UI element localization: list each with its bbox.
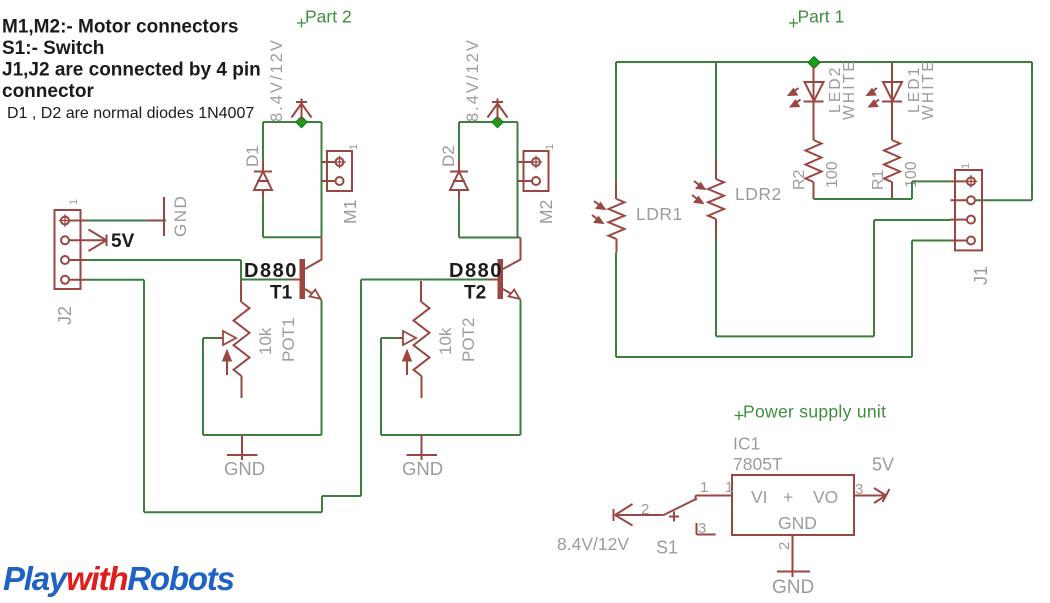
LED LED1 [867, 63, 903, 107]
svg-text:T2: T2 [464, 283, 486, 304]
label S1 [656, 538, 678, 558]
note line 5 [7, 105, 254, 122]
label GND (J2) [171, 195, 190, 237]
pin label 3 (IC1) [855, 481, 863, 498]
wire J2 pin4 to T2 base [87, 280, 488, 513]
wire Part1 top rail [616, 61, 1032, 63]
label D2 [439, 145, 458, 167]
wire D2/M2 loop [459, 122, 521, 238]
svg-text:Part 1: Part 1 [798, 7, 845, 27]
svg-text:IC1: IC1 [733, 434, 760, 454]
svg-text:5V: 5V [872, 455, 894, 475]
label D880 (T2) [449, 260, 503, 282]
svg-text:D1 , D2 are normal diodes 1N40: D1 , D2 are normal diodes 1N4007 [7, 105, 254, 122]
svg-text:GND: GND [171, 195, 190, 237]
svg-text:M1,M2:- Motor connectors: M1,M2:- Motor connectors [2, 17, 238, 38]
svg-text:GND: GND [402, 458, 443, 479]
label LDR1 [636, 204, 683, 224]
label GND (POT1) [224, 458, 265, 479]
transistor T1 [290, 237, 322, 299]
svg-text:T1: T1 [270, 283, 293, 304]
supply 8.4V/12V arrow (right) [488, 99, 508, 123]
svg-text:WHITE: WHITE [841, 59, 858, 120]
label 10k (POT1) [256, 327, 275, 355]
svg-text:Part 2: Part 2 [305, 7, 352, 27]
svg-text:VO: VO [813, 487, 838, 507]
photoresistor LDR2 [692, 160, 724, 239]
pin label 2 (IC1) [776, 542, 793, 550]
diode D2 [450, 161, 468, 199]
svg-text:2: 2 [776, 542, 793, 550]
label POT1 [279, 318, 298, 362]
svg-text:S1: S1 [656, 538, 678, 558]
pin label 3 (S1) [698, 520, 706, 537]
label T2 [464, 283, 486, 304]
pin label 1 (IC1) [725, 479, 733, 496]
ground GND (J2) [148, 197, 166, 236]
svg-text:+: + [783, 487, 793, 507]
pin label 1 (J1) [960, 163, 972, 169]
label 8.4V/12V (left) [268, 38, 286, 122]
svg-text:S1:- Switch: S1:- Switch [2, 38, 104, 59]
wire J2 pin1 to GND [87, 220, 148, 222]
label GND (POT2) [402, 458, 443, 479]
label 100 (R2) [824, 161, 841, 188]
label 5V (IC1 out) [872, 455, 894, 475]
label 8.4V/12V (input) [557, 534, 629, 554]
svg-text:J1: J1 [971, 266, 991, 285]
svg-text:D880: D880 [244, 260, 298, 282]
svg-text:WHITE: WHITE [920, 59, 937, 120]
note line 1 [2, 17, 238, 38]
label 100 (R1) [903, 161, 920, 188]
label R1 [870, 169, 887, 190]
svg-text:8.4V/12V: 8.4V/12V [268, 38, 286, 122]
svg-text:PlaywithRobots: PlaywithRobots [3, 560, 235, 597]
svg-text:1: 1 [68, 199, 80, 205]
svg-text:POT1: POT1 [279, 318, 298, 362]
label T1 [270, 283, 293, 304]
logo PlaywithRobots [3, 560, 235, 597]
svg-text:2: 2 [641, 501, 649, 518]
svg-text:R1: R1 [870, 169, 887, 190]
resistor R1 [884, 102, 900, 200]
connector J2 [55, 210, 88, 289]
svg-text:POT2: POT2 [459, 318, 478, 362]
svg-text:M1: M1 [340, 200, 360, 224]
label + (IC1) [783, 487, 793, 507]
svg-text:J2: J2 [55, 306, 75, 325]
resistor R2 [806, 102, 822, 200]
title Power supply unit [735, 402, 887, 422]
label LED2 WHITE [827, 59, 858, 120]
label D880 (T1) [244, 260, 298, 282]
svg-text:5V: 5V [111, 231, 135, 252]
svg-text:D1: D1 [243, 145, 262, 167]
potentiometer POT1 [218, 281, 250, 398]
wire LDR1 to J1 pin4 [616, 62, 951, 357]
wire IC1 pin1 [704, 495, 732, 497]
svg-text:1: 1 [960, 163, 972, 169]
note line 3 [2, 60, 261, 81]
svg-text:Power supply unit: Power supply unit [743, 402, 886, 422]
connector J1 [951, 170, 983, 250]
svg-text:8.4V/12V: 8.4V/12V [464, 38, 482, 122]
LED LED2 [788, 66, 824, 107]
pin label 1 (M1) [348, 144, 360, 150]
svg-text:R2: R2 [791, 169, 808, 190]
svg-text:7805T: 7805T [733, 454, 783, 474]
node junction (LED2 column) [808, 57, 820, 69]
svg-text:J1,J2 are connected by 4 pin: J1,J2 are connected by 4 pin [2, 60, 261, 81]
ground GND (POT2) [407, 435, 438, 460]
svg-text:M2: M2 [536, 200, 556, 224]
label POT2 [459, 318, 478, 362]
svg-text:3: 3 [855, 481, 863, 498]
svg-text:VI: VI [751, 487, 768, 507]
label LED1 WHITE [906, 59, 937, 120]
title Part 1 [789, 7, 844, 28]
svg-text:1: 1 [725, 479, 733, 496]
node junction (supply M1) [296, 116, 307, 127]
label D1 [243, 145, 262, 167]
svg-text:GND: GND [224, 458, 265, 479]
supply 8.4V/12V arrow (left) [292, 99, 312, 123]
node junction (supply M2) [492, 116, 503, 127]
label 8.4V/12V (right) [464, 38, 482, 122]
label 5V [111, 231, 135, 252]
svg-text:GND: GND [772, 577, 814, 598]
svg-text:1: 1 [700, 479, 708, 496]
connector M2 [518, 151, 549, 191]
svg-text:10k: 10k [256, 327, 275, 355]
wire IC1 pin3 5V arrow [854, 488, 890, 503]
ground GND (POT1) [227, 435, 258, 460]
title Part 2 [297, 7, 352, 28]
wire LDR2 to J1 pin3 [716, 62, 951, 336]
label GND (IC1) [772, 577, 814, 598]
photoresistor LDR1 [592, 181, 625, 253]
label GND inside IC1 [778, 513, 817, 533]
pin label 1 (S1) [700, 479, 708, 496]
svg-text:LDR2: LDR2 [735, 184, 782, 204]
potentiometer POT2 [398, 281, 430, 398]
wire J2 pin3 to T1 base / POT1 [87, 260, 290, 281]
pin label 1 (J2) [68, 199, 80, 205]
diode D1 [254, 161, 272, 199]
supply 8.4V/12V arrow (input) [614, 504, 664, 526]
label M1 [340, 200, 360, 224]
wire D1/M1 loop [263, 122, 322, 237]
svg-text:connector: connector [2, 81, 94, 102]
label 7805T [733, 454, 783, 474]
transistor T2 [488, 238, 521, 300]
label M2 [536, 200, 556, 224]
label J1 [971, 266, 991, 285]
svg-text:1: 1 [348, 144, 360, 150]
label VI [751, 487, 768, 507]
wire POT1 wiper to T1 emitter [203, 300, 322, 435]
wire POT2 wiper to T2 emitter [381, 300, 521, 435]
note line 2 [2, 38, 104, 59]
label J2 [55, 306, 75, 325]
pin label 1 (M2) [544, 144, 556, 150]
label 10k (POT2) [436, 327, 455, 355]
pin label 2 (S1) [641, 501, 649, 518]
wire IC1 pin2 GND [792, 535, 794, 570]
svg-text:3: 3 [698, 520, 706, 537]
svg-text:GND: GND [778, 513, 817, 533]
supply 5V arrow [87, 230, 107, 252]
switch S1 [664, 496, 716, 535]
wire R rail to J1 pin1 [814, 181, 951, 199]
svg-text:1: 1 [544, 144, 556, 150]
svg-text:100: 100 [824, 161, 841, 188]
label IC1 [733, 434, 760, 454]
svg-text:D2: D2 [439, 145, 458, 167]
ground GND (IC1) [777, 570, 810, 577]
svg-text:8.4V/12V: 8.4V/12V [557, 534, 629, 554]
svg-text:10k: 10k [436, 327, 455, 355]
wire Part1 right side to J1 pin2 [976, 62, 1032, 200]
label LDR2 [735, 184, 782, 204]
label R2 [791, 169, 808, 190]
label VO (IC1) [813, 487, 838, 507]
svg-text:D880: D880 [449, 260, 503, 282]
svg-text:LDR1: LDR1 [636, 204, 683, 224]
IC 7805 regulator IC1 box [732, 475, 854, 535]
connector M1 [322, 151, 353, 191]
note line 4 [2, 81, 94, 102]
